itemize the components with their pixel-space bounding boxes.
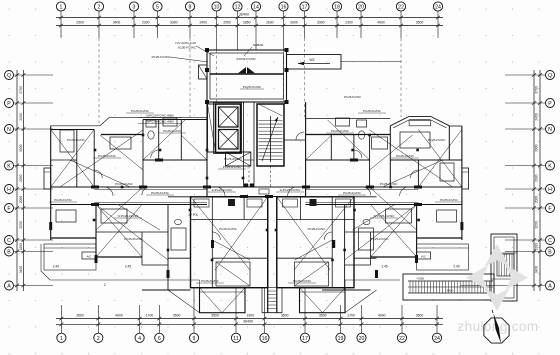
svg-text:3200: 3200	[535, 221, 539, 229]
left lower south wall	[51, 237, 96, 239]
fixture basin right	[363, 219, 370, 224]
svg-text:11: 11	[233, 336, 238, 342]
stair center rail	[270, 116, 272, 162]
circuit wire left 3	[118, 205, 160, 231]
grid bubble top 2	[94, 2, 103, 11]
right wing wall b	[369, 135, 371, 188]
left wing west wall	[50, 126, 52, 240]
svg-text:3500: 3500	[416, 314, 424, 318]
svg-text:3500: 3500	[416, 21, 424, 25]
bed right 1	[372, 137, 388, 149]
infill room divider right	[354, 257, 377, 259]
elevator car E1	[219, 107, 239, 127]
svg-text:8: 8	[189, 5, 192, 11]
right lower wall g	[344, 205, 346, 291]
fixture br 1	[336, 199, 351, 207]
bed left 1	[110, 137, 131, 149]
svg-text:3400: 3400	[535, 266, 539, 274]
machine room outer wall	[207, 50, 287, 102]
terrace edge right join	[344, 280, 346, 288]
pipe shaft below elevators	[226, 152, 251, 166]
svg-text:PC25-FC/NC: PC25-FC/NC	[293, 279, 312, 283]
svg-text:4000: 4000	[115, 314, 123, 318]
grid bubble top 5	[153, 2, 162, 11]
svg-text:PC25-FC/NC: PC25-FC/NC	[440, 198, 459, 202]
bed right 3	[437, 210, 457, 222]
grid bubble top 1	[56, 2, 65, 11]
svg-text:A: A	[548, 284, 552, 290]
grid bubble bottom 9	[189, 333, 198, 342]
grid bubble right H	[546, 185, 555, 194]
svg-text:2700: 2700	[19, 86, 23, 94]
left wing eave line west	[51, 125, 100, 127]
switch boxes	[94, 149, 97, 152]
left wing wall d	[180, 120, 182, 161]
lobby mailbox	[259, 189, 269, 194]
top dimension line 1	[56, 17, 443, 19]
wardrobe right	[440, 163, 454, 181]
bottom-right balcony rail	[300, 291, 346, 293]
left lower wall f	[95, 205, 97, 258]
svg-text:22: 22	[398, 5, 404, 11]
duct W arrowhead	[298, 62, 304, 65]
svg-text:16: 16	[281, 5, 287, 11]
svg-text:PC25-FC/NC: PC25-FC/NC	[428, 138, 447, 142]
pipe chase beside machine room	[199, 65, 208, 79]
right lower south wall 2	[322, 289, 371, 291]
grid bubble bottom 6	[155, 333, 164, 342]
corridor door sill	[244, 159, 255, 161]
right lower wall f	[416, 205, 418, 258]
svg-text:2.4X: 2.4X	[453, 265, 460, 269]
svg-text:K: K	[548, 164, 552, 170]
AC platform right	[417, 252, 431, 259]
fixture toilet left	[148, 131, 154, 139]
grid bubble top 12	[233, 2, 242, 11]
svg-text:1000: 1000	[535, 243, 539, 251]
grid bubble top 17	[300, 2, 309, 11]
svg-text:1900: 1900	[246, 314, 254, 318]
svg-text:PC25-FC/NC: PC25-FC/NC	[343, 191, 362, 195]
infill room north wall right	[354, 196, 377, 198]
room X right column b	[418, 130, 462, 188]
grid leader top 16	[283, 11, 285, 50]
door arc right 1	[400, 187, 409, 196]
svg-text:H: H	[7, 187, 11, 193]
wall post	[285, 100, 289, 104]
grid leader right Q	[505, 74, 546, 76]
bed left 2	[101, 209, 127, 223]
svg-text:PC25-FC/NC: PC25-FC/NC	[98, 154, 117, 158]
svg-text:3500: 3500	[319, 314, 327, 318]
grid leader left H	[14, 188, 53, 190]
grid bubble bottom 1	[57, 333, 66, 342]
svg-text:PC25-FC/NC: PC25-FC/NC	[308, 227, 327, 231]
grid leader right H	[505, 188, 546, 190]
svg-text:B: B	[7, 250, 11, 256]
svg-text:2000: 2000	[535, 196, 539, 204]
stair tower treads	[498, 254, 500, 276]
grid leader top 14	[255, 11, 257, 50]
grid leader top 22	[400, 11, 402, 38]
svg-text:2xPC25-FC/NC: 2xPC25-FC/NC	[212, 188, 234, 192]
svg-text:2030: 2030	[535, 174, 539, 182]
corridor step wall east	[281, 288, 283, 313]
svg-text:20: 20	[359, 336, 365, 342]
grid leader bottom 19	[340, 305, 342, 333]
grid bubble bottom 16	[260, 333, 269, 342]
svg-text:N: N	[7, 127, 11, 133]
fixture bl 1	[194, 199, 209, 207]
svg-text:22: 22	[399, 336, 405, 342]
external stair outer wall	[403, 274, 494, 300]
gridline 22 dashed	[400, 38, 402, 117]
svg-text:3200: 3200	[19, 221, 23, 229]
grid bubble bottom 4	[135, 333, 144, 342]
pipe chase diagonal	[199, 65, 208, 79]
door arc right 3	[410, 170, 418, 178]
bay window outer	[390, 116, 449, 125]
infill room divider left	[168, 257, 191, 259]
svg-text:P: P	[7, 101, 11, 107]
circuit wire right 3	[353, 205, 395, 231]
grid leader bottom 1	[60, 305, 62, 333]
left wing wall i	[51, 159, 77, 161]
door arc right 2	[363, 187, 371, 195]
pipe shaft column	[208, 104, 216, 152]
left wing wall h	[76, 130, 78, 188]
left bay window	[44, 168, 51, 189]
top dimension line 2	[56, 25, 443, 27]
grid leader top 3	[133, 11, 135, 38]
circuit homerun right c	[328, 120, 370, 160]
grid leader right B	[505, 251, 546, 253]
svg-text:20: 20	[358, 5, 364, 11]
svg-text:17: 17	[302, 5, 308, 11]
infill room north wall left	[168, 196, 191, 198]
right corner eave	[449, 125, 462, 127]
corridor inner line left 2	[94, 201, 207, 203]
wall post	[205, 100, 209, 104]
svg-text:10: 10	[214, 5, 220, 11]
svg-text:3500: 3500	[173, 314, 181, 318]
grid leader top 8	[189, 11, 191, 38]
balcony roof diagonal 3	[300, 288, 323, 313]
compass needle	[494, 314, 502, 344]
circuit wire right 5	[306, 135, 332, 160]
terrace edge left join	[199, 280, 201, 288]
bed diagonal bl	[216, 262, 250, 286]
svg-text:2400: 2400	[19, 113, 23, 121]
svg-text:2300: 2300	[345, 21, 353, 25]
grid bubble left B	[5, 247, 14, 256]
svg-text:N PC25-FC/NC: N PC25-FC/NC	[118, 214, 140, 218]
circuit homerun left a	[60, 130, 143, 187]
wardrobe left	[60, 130, 74, 152]
stair east wall inner	[283, 104, 285, 166]
grid bubble right B	[546, 247, 555, 256]
grid bubble top 18	[332, 2, 341, 11]
svg-text:36400: 36400	[243, 320, 253, 324]
svg-text:24: 24	[434, 336, 440, 342]
svg-text:19: 19	[338, 336, 344, 342]
grid bubble left K	[5, 161, 14, 170]
wall post	[205, 68, 209, 72]
grid leader left P	[14, 102, 53, 104]
external stair treads	[409, 281, 411, 293]
svg-text:4000: 4000	[378, 314, 386, 318]
svg-text:PC25-FC/NC: PC25-FC/NC	[131, 109, 150, 113]
kitchen counter right	[336, 118, 350, 126]
grid bubble left H	[5, 185, 14, 194]
grid leader top 18	[336, 11, 338, 38]
svg-text:3000: 3000	[535, 144, 539, 152]
duct W box	[287, 55, 342, 70]
svg-text:2400: 2400	[535, 113, 539, 121]
duct W leader to grid 22	[341, 61, 401, 63]
external stair rail top	[408, 280, 493, 282]
watermark pinwheel logo	[485, 244, 510, 267]
svg-text:P: P	[548, 101, 552, 107]
external stair mid rail	[408, 286, 493, 288]
bed bottom-left	[216, 262, 250, 286]
external stair rail bottom	[408, 292, 493, 294]
lobby dashed route 2	[270, 166, 272, 187]
grid leader bottom 2	[97, 305, 99, 333]
bottom-right unit wall b	[299, 197, 301, 220]
left bath north wall	[143, 119, 207, 121]
svg-text:3500: 3500	[76, 314, 84, 318]
svg-text:A: A	[7, 284, 11, 290]
bottom-left unit wall b	[243, 197, 245, 220]
right dim chain line 2	[539, 70, 541, 291]
right wing wall i	[390, 159, 462, 161]
grid bubble top 8	[185, 2, 194, 11]
wall post	[205, 48, 209, 52]
right wing corridor north wall	[306, 186, 462, 188]
svg-text:A/C: A/C	[87, 255, 92, 259]
svg-text:1700: 1700	[347, 314, 355, 318]
svg-text:12: 12	[235, 5, 241, 11]
bottom corridor wall west	[267, 197, 269, 313]
left lower divider	[96, 231, 168, 233]
door arc bottom-left	[212, 232, 220, 240]
svg-text:17: 17	[302, 336, 308, 342]
bed left 3	[56, 210, 76, 222]
svg-text:PC25+FC/NC: PC25+FC/NC	[223, 165, 242, 169]
wall post	[285, 68, 289, 72]
grid bubble right C	[546, 236, 555, 245]
room X left column a	[51, 130, 94, 188]
stair landing diagonal	[259, 104, 283, 116]
door arc right 4	[354, 150, 362, 158]
svg-text:9: 9	[193, 336, 196, 342]
left column north wall	[51, 129, 94, 131]
svg-text:2.4X: 2.4X	[53, 265, 60, 269]
left wing wall c	[158, 120, 160, 161]
bed diagonal br	[295, 262, 329, 286]
fixture left bath	[146, 120, 156, 127]
grid leader top 5	[157, 11, 159, 38]
grid leader top 17	[304, 11, 306, 38]
svg-text:3300: 3300	[170, 21, 178, 25]
left wing bedroom north wall	[101, 134, 143, 136]
bottom corridor sill	[262, 287, 282, 289]
corridor steps	[268, 290, 277, 292]
circuit homerun bl	[191, 197, 251, 270]
svg-text:PC25-FC/NC: PC25-FC/NC	[163, 129, 182, 133]
svg-text:3000: 3000	[19, 144, 23, 152]
svg-text:PC25-FC/NC: PC25-FC/NC	[124, 237, 143, 241]
grid leader right K	[505, 165, 546, 167]
svg-text:C: C	[548, 238, 552, 244]
circuit homerun right b	[345, 205, 417, 261]
svg-text:3500: 3500	[281, 314, 289, 318]
grid leader right C	[505, 239, 546, 241]
AC platform left	[82, 252, 96, 259]
fixture infill left	[171, 228, 186, 250]
bottom-left unit wall d	[211, 220, 213, 288]
svg-text:3xPC20-FC/NC+NBV: 3xPC20-FC/NC+NBV	[146, 120, 174, 124]
grid bubble left F	[5, 204, 14, 213]
gridline 8 dashed	[189, 38, 191, 117]
svg-text:3500: 3500	[211, 314, 219, 318]
svg-text:-4.500: -4.500	[416, 277, 424, 281]
circuit homerun br	[294, 197, 354, 270]
fixture basin left	[175, 219, 182, 224]
grid leader bottom 9	[193, 288, 195, 333]
grid leader right F	[505, 207, 546, 209]
fixture right bath	[357, 120, 367, 127]
left balcony rail	[44, 247, 96, 249]
svg-text:18: 18	[334, 5, 340, 11]
svg-text:H: H	[548, 187, 552, 193]
bottom-left balcony	[200, 288, 246, 313]
lobby door arc east	[288, 187, 297, 196]
right balcony terrace	[417, 244, 469, 270]
left lower wall g	[167, 205, 169, 291]
svg-text:5: 5	[156, 5, 159, 11]
svg-text:YJV-4x25+1x16: YJV-4x25+1x16	[175, 41, 196, 45]
grid leader left C	[14, 239, 53, 241]
corridor inner line right 2	[306, 201, 419, 203]
grid leader bottom 17	[304, 288, 306, 333]
svg-text:4: 4	[138, 336, 141, 342]
bottom-right unit outer wall	[277, 197, 354, 288]
svg-text:2: 2	[104, 283, 106, 287]
elevator car E2	[219, 130, 239, 150]
left lower step wall	[142, 264, 168, 266]
grid bubble left P	[5, 99, 14, 108]
svg-text:PC25-FC/NC: PC25-FC/NC	[331, 129, 350, 133]
grid bubble left C	[5, 236, 14, 245]
grid bubble bottom 22	[397, 333, 406, 342]
bay room east wall	[448, 126, 450, 160]
gridline 17 dashed	[304, 38, 306, 117]
svg-text:A/C: A/C	[421, 255, 426, 259]
grid bubble left A	[5, 281, 14, 290]
svg-text:PC25-FC/NC: PC25-FC/NC	[380, 182, 399, 186]
right lower divider	[345, 231, 417, 233]
machine room inner wall	[210, 53, 284, 99]
svg-text:F: F	[548, 206, 551, 212]
duct W arrow line	[298, 63, 330, 65]
terrace edge left	[41, 244, 200, 280]
grid bubble bottom 11	[231, 333, 240, 342]
stair treads	[259, 120, 283, 122]
grid bubble top 10	[212, 2, 221, 11]
left wing eave line	[109, 117, 207, 119]
right balcony rail	[417, 247, 469, 249]
svg-text:3: 3	[133, 5, 136, 11]
left lower wall j	[141, 232, 143, 265]
balcony roof diagonal 4	[323, 288, 346, 313]
door arc left 4	[151, 150, 159, 158]
svg-text:AWBXE: AWBXE	[253, 43, 264, 47]
grid leader bottom 20	[361, 305, 363, 333]
corridor wall west	[243, 102, 245, 187]
grid bubble bottom 20	[357, 333, 366, 342]
svg-text:36400: 36400	[239, 13, 249, 17]
svg-text:6: 6	[158, 336, 161, 342]
grid bubble right N	[546, 125, 555, 134]
svg-text:PC25-FC/NC: PC25-FC/NC	[363, 109, 382, 113]
bottom dimension line 1	[56, 318, 443, 320]
elevator E1 diagonal 2	[219, 107, 239, 127]
grid bubble right Q	[546, 71, 555, 80]
pipe shaft diagonal 2	[226, 152, 251, 166]
svg-text:PC25-FC/NC: PC25-FC/NC	[54, 198, 73, 202]
bottom-right unit wall c	[277, 219, 354, 221]
grid leader left Q	[14, 74, 53, 76]
elevator E2 diagonal 2	[219, 130, 239, 150]
grid bubble top 16	[279, 2, 288, 11]
svg-text:1: 1	[60, 336, 63, 342]
grid leader top 2	[98, 11, 100, 38]
svg-text:1700: 1700	[146, 314, 154, 318]
core west wall	[206, 102, 208, 197]
left bath west jog	[142, 120, 144, 135]
right bay window	[462, 168, 469, 189]
corridor inner line left	[94, 189, 207, 191]
corridor inner line right	[306, 189, 419, 191]
gridline 2 dashed	[98, 38, 100, 125]
left balcony terrace	[44, 244, 96, 270]
leader line feeder	[196, 46, 214, 56]
grid leader left K	[14, 165, 53, 167]
label L5 underline	[138, 123, 182, 125]
gridline 10 dashed	[216, 50, 218, 104]
grid leader bottom 16	[264, 288, 266, 333]
svg-text:PC25-FC/NC: PC25-FC/NC	[344, 95, 361, 99]
terrace roof diagonal left	[168, 290, 200, 313]
left wing corridor north wall	[51, 186, 207, 188]
grid bubble top 24	[433, 2, 442, 11]
grid leader left B	[14, 251, 53, 253]
circuit homerun left b	[96, 205, 168, 261]
grid leader left A	[14, 285, 53, 287]
door arc left 2	[142, 187, 150, 195]
circuit wire left 1	[70, 160, 130, 187]
svg-text:PC25-FC/NC: PC25-FC/NC	[201, 279, 220, 283]
circuit homerun right a	[370, 130, 453, 187]
circuit wire right 1	[383, 160, 443, 187]
grid bubble right F	[546, 204, 555, 213]
circuit wire left 5	[181, 135, 207, 160]
bottom-right balcony	[300, 288, 346, 313]
bottom-left unit outer wall	[191, 197, 268, 288]
svg-text:2700: 2700	[535, 86, 539, 94]
